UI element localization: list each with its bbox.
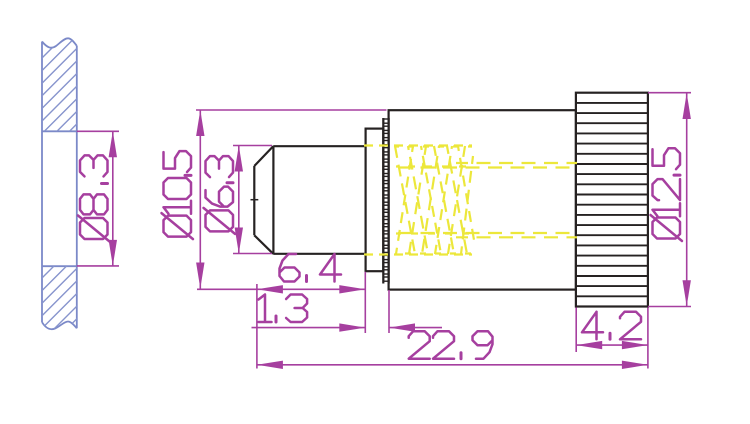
spring wire row dashes [396, 145, 472, 147]
washer rect [366, 129, 384, 272]
dim line right tail [389, 327, 442, 329]
dim line [686, 93, 688, 307]
ext line left [575, 308, 577, 353]
dim line [238, 146, 240, 254]
tip junction line [272, 146, 274, 254]
arrow up [109, 131, 117, 157]
ext line right [647, 308, 649, 369]
text 6.4 [280, 254, 342, 282]
panel break line top [42, 38, 77, 47]
ext line bottom [233, 253, 272, 255]
dim line left part [252, 327, 366, 329]
text Ø8.3 rotated [78, 155, 110, 241]
spring inner top line pair [398, 166, 577, 168]
cylinder top edge [273, 145, 365, 147]
ext line right [388, 290, 390, 333]
center tick [251, 199, 259, 201]
ext line right [364, 272, 366, 333]
ext line top [233, 145, 272, 147]
ladder rungs [384, 119, 389, 281]
text 22.9 [409, 331, 493, 359]
cylinder bottom edge [273, 253, 365, 255]
text Ø10.5 rotated [162, 151, 194, 239]
panel left edge [41, 42, 43, 323]
text Ø12.5 rotated [651, 148, 683, 241]
hole top edge [42, 130, 77, 132]
tip chamfer top [254, 146, 273, 166]
panel break line bottom [42, 322, 77, 330]
dim line [199, 110, 201, 289]
knob rect [576, 93, 648, 307]
panel right edge [76, 46, 78, 329]
tip face [253, 166, 255, 235]
dim line [112, 131, 114, 266]
ladder rails [383, 118, 388, 284]
spring outer bottom [364, 253, 472, 255]
arrow down [109, 240, 117, 266]
dim line [576, 344, 648, 346]
dim line [257, 364, 648, 366]
spring coils [395, 146, 415, 254]
ext line bottom [648, 306, 691, 308]
body rect [389, 110, 576, 289]
text Ø6.3 rotated [204, 156, 236, 234]
dim line (also Ø10.5 bottom ext) [197, 288, 365, 290]
text 4.2 [582, 312, 641, 340]
text 1.3 [259, 295, 308, 323]
ext line bottom [77, 265, 119, 267]
ext line top [196, 109, 387, 111]
spring outer top [364, 144, 472, 146]
spring inner bottom line pair [398, 232, 577, 234]
ext line top [648, 92, 691, 94]
ext line left [256, 284, 258, 369]
hole bottom edge [42, 265, 77, 267]
tip chamfer bottom [254, 235, 273, 254]
ext line top [77, 130, 119, 132]
knob knurling [576, 103, 648, 296]
